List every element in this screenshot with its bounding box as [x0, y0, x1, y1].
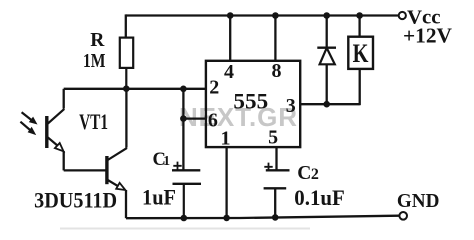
junction bottom rail pin1 — [223, 215, 230, 222]
capacitor C2 polarity plus — [264, 163, 272, 171]
wire Q2 emitter vertical — [125, 190, 127, 218]
diode VD1 cathode bar — [317, 47, 336, 49]
svg-text:8: 8 — [272, 60, 282, 82]
svg-text:6: 6 — [208, 110, 218, 132]
svg-text:4: 4 — [224, 61, 234, 83]
svg-text:2: 2 — [209, 77, 219, 99]
transistor Q2 emitter arrowhead (open) — [116, 183, 125, 190]
light arrow 2 — [20, 122, 31, 131]
svg-text:2: 2 — [311, 166, 319, 183]
capacitor C2 top plate — [266, 169, 290, 171]
wire resistor top lead — [125, 14, 127, 37]
junction bottom rail C1 — [181, 215, 188, 222]
svg-text:1: 1 — [221, 128, 231, 150]
wire relay top lead — [358, 16, 360, 37]
phototransistor VT1 emitter arrowhead (open) — [55, 143, 64, 151]
phototransistor VT1 base bar — [45, 116, 48, 148]
diode VD1 triangle — [320, 48, 335, 64]
svg-text:1M: 1M — [83, 50, 106, 72]
transistor Q2 base bar — [105, 156, 108, 184]
wire Q2 collector vertical — [125, 89, 127, 148]
wire top Vcc rail — [126, 14, 399, 16]
IC U1 555 box — [206, 61, 300, 147]
wire VT1 emitter to Q2 base — [64, 169, 106, 171]
wire pin 3 — [301, 103, 360, 105]
svg-text:+12V: +12V — [403, 24, 452, 48]
svg-text:3: 3 — [286, 95, 296, 117]
junction node pin6 branch — [180, 115, 187, 122]
svg-text:0.1uF: 0.1uF — [294, 185, 345, 210]
svg-text:VT1: VT1 — [79, 109, 108, 134]
resistor R bottom lead — [125, 68, 127, 89]
svg-text:C: C — [297, 163, 311, 184]
scan artifact bottom edge — [60, 228, 310, 230]
wire VT1 emitter vertical — [63, 151, 65, 170]
transistor Q2 emitter diagonal — [107, 180, 119, 187]
junction top rail relay — [356, 12, 363, 19]
wire pin 5 to C2 — [275, 147, 277, 170]
wire pin 4 — [229, 16, 231, 61]
resistor R body — [120, 38, 133, 68]
wire pin 8 — [274, 16, 276, 61]
wire relay bottom lead — [359, 69, 361, 105]
light arrow 1 — [22, 112, 33, 120]
wire node-A horizontal (VT1 collector to pin2) — [64, 88, 206, 90]
transistor Q2 collector diagonal — [107, 148, 127, 161]
capacitor C1 top plate — [172, 169, 200, 171]
wire pin2/6 to C1 vertical — [182, 89, 184, 171]
wire bottom ground rail — [126, 216, 399, 219]
junction top rail pin8 — [272, 12, 279, 19]
junction top rail pin4 — [227, 12, 234, 19]
wire pin 6 stub — [183, 117, 206, 119]
phototransistor VT1 collector diagonal — [48, 109, 65, 124]
capacitor C1 bottom plate — [173, 183, 202, 185]
junction bottom rail C2 — [272, 214, 279, 221]
junction top rail diode — [323, 12, 330, 19]
svg-text:R: R — [90, 30, 105, 51]
wire C2 bottom lead — [274, 188, 276, 217]
wire diode bottom lead — [326, 64, 328, 104]
terminal Vcc circle — [399, 12, 406, 19]
svg-text:555: 555 — [233, 89, 268, 114]
junction node pin2 branch — [180, 86, 187, 93]
svg-text:GND: GND — [397, 190, 440, 212]
phototransistor VT1 emitter diagonal — [48, 137, 58, 146]
capacitor C2 bottom plate — [264, 187, 287, 189]
svg-text:1: 1 — [163, 154, 170, 169]
junction node R bottom — [123, 85, 130, 92]
svg-text:K: K — [353, 39, 369, 68]
junction pin3 diode — [323, 101, 330, 108]
wire pin 1 — [225, 147, 227, 218]
wire diode top lead — [326, 16, 328, 48]
capacitor C1 bottom lead — [183, 184, 185, 218]
svg-text:5: 5 — [268, 127, 278, 149]
relay K box — [348, 37, 373, 69]
svg-text:1uF: 1uF — [142, 184, 176, 209]
capacitor C1 polarity plus — [173, 162, 181, 170]
wire VT1 collector vertical — [63, 89, 65, 109]
terminal GND circle — [399, 212, 407, 220]
svg-text:3DU511D: 3DU511D — [34, 188, 117, 213]
